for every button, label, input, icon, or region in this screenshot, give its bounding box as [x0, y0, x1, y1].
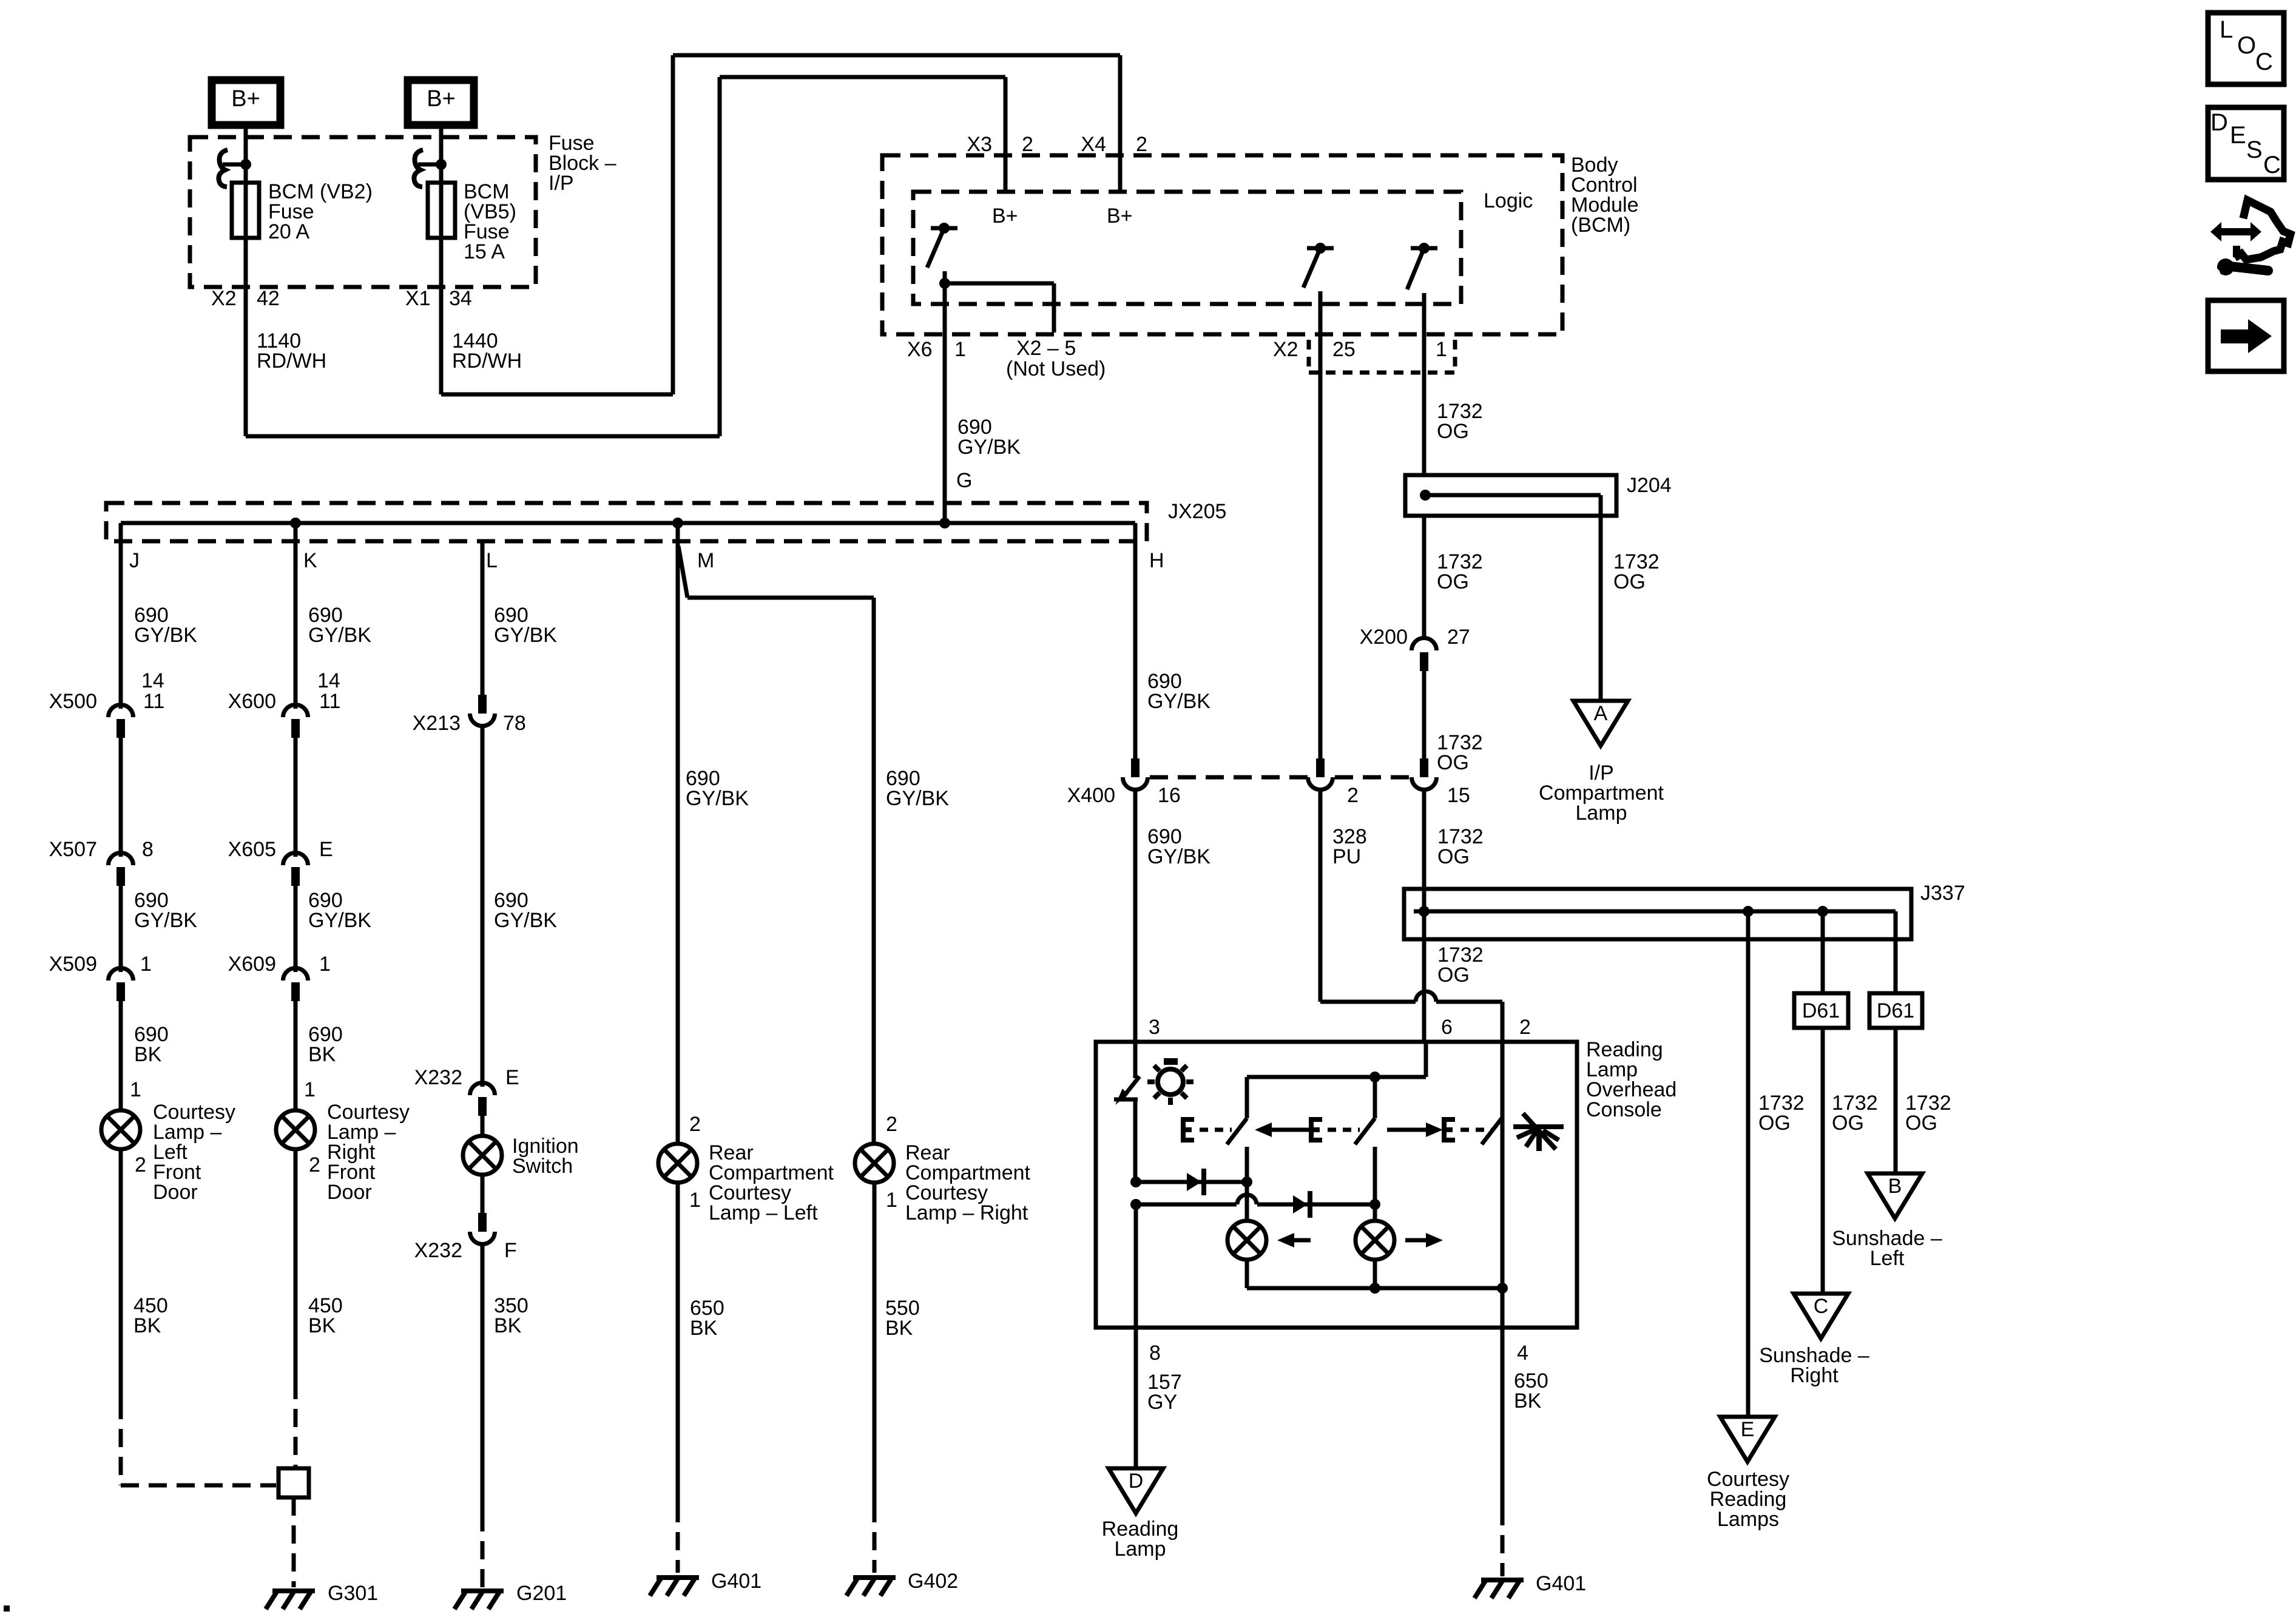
- wire K 690 BK to lamp: [294, 1001, 298, 1111]
- ground G401 (console): [1474, 1580, 1524, 1598]
- lamp Rear Compartment Courtesy Lamp - Left: [658, 1144, 697, 1183]
- label X2 25 1: [1273, 338, 1447, 361]
- svg-text:G: G: [956, 469, 972, 492]
- svg-text:X232: X232: [414, 1066, 462, 1089]
- label X507 8: [49, 838, 154, 861]
- label pin 6 console: [1441, 1016, 1453, 1039]
- node dot J337 left: [1419, 906, 1430, 917]
- svg-text:E: E: [2230, 122, 2246, 149]
- svg-text:L: L: [486, 549, 498, 572]
- label 1732 OG above J337: [1437, 825, 1484, 868]
- off-page connector B (Sunshade Left): [1868, 1173, 1922, 1218]
- node dot J337 mid: [1743, 906, 1754, 917]
- svg-text:GY/BK: GY/BK: [494, 624, 557, 647]
- label X232 E: [414, 1066, 519, 1089]
- BCM switch S3 (X2-1 output): [1407, 243, 1437, 289]
- label J337: [1920, 882, 1965, 905]
- wire 1732 OG J337 to D61 right: [1894, 939, 1898, 993]
- wire 450 BK courtesy right to splice: [294, 1149, 298, 1468]
- label wire 1440 RD/WH: [452, 329, 522, 373]
- svg-text:1: 1: [319, 953, 331, 976]
- dimmer icon: [1513, 1113, 1564, 1151]
- fuse F1 holder clip: [218, 150, 228, 187]
- label G401 console: [1536, 1572, 1586, 1595]
- wire 650 BK rear lamp left to G401: [676, 1182, 680, 1573]
- svg-text:X605: X605: [228, 838, 276, 861]
- arrow right (SW2 direction): [1387, 1122, 1443, 1137]
- svg-text:X232: X232: [414, 1239, 462, 1262]
- wire SW2 to lamp 2: [1369, 1147, 1380, 1221]
- label pin 16: [1158, 784, 1181, 807]
- svg-text:GY/BK: GY/BK: [886, 787, 949, 810]
- svg-text:X213: X213: [413, 712, 461, 735]
- svg-text:J337: J337: [1920, 882, 1965, 905]
- wire 650 BK pin 4 to ground G401: [1501, 1328, 1505, 1576]
- label 328 PU lower: [1332, 825, 1367, 868]
- svg-text:Lamp: Lamp: [1114, 1538, 1166, 1561]
- svg-text:Right: Right: [1790, 1364, 1838, 1387]
- wire J 690 BK to lamp: [119, 1001, 123, 1111]
- wire X6-1 inside BCM: [939, 271, 950, 334]
- label 1732 OG C branch: [1832, 1092, 1878, 1135]
- label fuse block pins X2 42: [211, 287, 280, 310]
- svg-text:8: 8: [1149, 1342, 1161, 1365]
- svg-text:Switch: Switch: [512, 1155, 573, 1178]
- power symbol B+ (feeds BCM VB2 fuse): [212, 80, 280, 125]
- lamp console reading lamp right: [1356, 1221, 1394, 1260]
- svg-text:X4: X4: [1081, 133, 1106, 156]
- wire D61 right to triangle B: [1894, 1028, 1898, 1173]
- wire 350 BK to ground G201: [481, 1244, 485, 1587]
- label X509 1: [49, 953, 152, 976]
- off-page connector D (Reading Lamp): [1109, 1468, 1163, 1513]
- console switch SW3 (dimmer): [1442, 1117, 1502, 1144]
- label 650 BK rear left: [690, 1297, 724, 1340]
- connector X400 dashed face: [1150, 775, 1411, 780]
- wire stub X2-5 not used: [945, 283, 1054, 333]
- connector JX205 dashed outline: [106, 503, 1147, 541]
- splice pack J337: [1404, 889, 1911, 939]
- connector X509 terminal 1: [108, 968, 133, 1001]
- label 690 GY/BK H upper: [1147, 670, 1210, 713]
- console switch SW1 (left reading lamp): [1181, 1117, 1247, 1144]
- fuse F1 node dot and tick: [223, 159, 251, 170]
- label terminal M: [697, 549, 714, 572]
- label pin 2 console: [1519, 1016, 1531, 1039]
- ground G201: [454, 1591, 504, 1609]
- label pin 8: [1149, 1342, 1161, 1365]
- wire 550 BK rear lamp right to G402: [873, 1182, 877, 1573]
- wire 690 GY/BK X400-16 to console pin 3: [1133, 789, 1138, 1042]
- svg-text:1: 1: [304, 1078, 316, 1101]
- fuse F2 BCM (VB5) 15A: [428, 164, 455, 238]
- label X400: [1067, 784, 1115, 807]
- label 450 BK J: [133, 1294, 168, 1337]
- svg-text:X507: X507: [49, 838, 97, 861]
- BCM switch S2 (X2-25 output): [1303, 243, 1334, 288]
- label 1732 OG below X200: [1437, 731, 1483, 774]
- wire 450 BK courtesy left to splice: [121, 1149, 276, 1485]
- svg-text:K: K: [303, 549, 317, 572]
- svg-text:B+: B+: [231, 86, 260, 112]
- label 14 11 (X600): [317, 669, 340, 713]
- label 1732 OG B branch: [1905, 1092, 1951, 1135]
- svg-text:Door: Door: [153, 1181, 198, 1204]
- label X605 E: [228, 838, 333, 861]
- label 690 GY/BK K mid: [308, 889, 371, 932]
- fuse F1 BCM (VB2) 20A: [232, 164, 259, 238]
- wire H drop 690 GY/BK to X400-16: [1133, 523, 1138, 758]
- svg-text:X600: X600: [228, 690, 276, 713]
- svg-text:B+: B+: [992, 204, 1018, 228]
- door jamb switch at pin 3: [1114, 1042, 1140, 1182]
- svg-text:6: 6: [1441, 1016, 1453, 1039]
- label pin 1 rear lamp right: [886, 1189, 897, 1212]
- dome lamp icon (sun symbol): [1147, 1058, 1194, 1105]
- svg-text:PU: PU: [1332, 845, 1361, 868]
- svg-text:BK: BK: [134, 1043, 162, 1066]
- BCM outer dashed box: [882, 155, 1562, 334]
- connector X600 terminals 14-11: [283, 705, 308, 738]
- label 690 BK K: [308, 1023, 343, 1066]
- label 1732 OG above J204: [1437, 400, 1483, 443]
- svg-text:E: E: [319, 838, 333, 861]
- svg-text:X2: X2: [211, 287, 237, 310]
- label G201: [516, 1582, 567, 1605]
- wire L drop 690 GY/BK: [481, 542, 485, 695]
- label G301: [328, 1582, 378, 1605]
- off-page connector C (Sunshade Right): [1794, 1294, 1848, 1338]
- label B+ at X3: [992, 204, 1018, 228]
- label Courtesy Lamp - Left Front Door: [153, 1101, 235, 1204]
- label Rear Compartment Courtesy Lamp - Left: [709, 1141, 834, 1224]
- svg-text:GY/BK: GY/BK: [308, 909, 371, 932]
- svg-text:C: C: [2255, 49, 2273, 75]
- svg-text:Console: Console: [1586, 1098, 1662, 1121]
- label JX205: [1168, 500, 1226, 523]
- svg-text:2: 2: [1519, 1016, 1531, 1039]
- svg-text:1: 1: [140, 953, 152, 976]
- svg-text:E: E: [505, 1066, 519, 1089]
- wire M branch to rear lamp right: [678, 546, 874, 1144]
- label pin 2 courtesy lamp right: [309, 1153, 320, 1176]
- ground G301: [266, 1591, 315, 1609]
- power symbol B+ (feeds BCM VB5 fuse): [408, 80, 474, 125]
- wire lamp bottoms to pin 4: [1247, 1259, 1502, 1294]
- label 690 GY/BK K upper: [308, 604, 371, 647]
- wire pin2/4 vertical inside console: [1497, 1042, 1508, 1328]
- svg-text:H: H: [1149, 549, 1164, 572]
- label pin 3 console: [1149, 1016, 1160, 1039]
- wire SW1 to lamp 1: [1241, 1147, 1252, 1221]
- svg-text:OG: OG: [1437, 964, 1470, 987]
- label fuse block pins X1 34: [405, 287, 472, 310]
- wire K X605 to X609: [294, 886, 298, 972]
- svg-text:X509: X509: [49, 953, 97, 976]
- label J204: [1627, 474, 1672, 497]
- arrow left (SW1 direction): [1255, 1122, 1311, 1137]
- svg-text:2: 2: [886, 1113, 897, 1136]
- label 650 BK console: [1514, 1369, 1548, 1413]
- svg-text:GY/BK: GY/BK: [1147, 690, 1210, 713]
- diode row 2: [1130, 1191, 1375, 1218]
- label Courtesy Lamp - Right Front Door: [327, 1101, 410, 1204]
- label pin 4: [1517, 1342, 1528, 1365]
- label Reading Lamp: [1102, 1517, 1179, 1561]
- wire 1440 RD/WH from fuse F2 to BCM X4: [441, 55, 1120, 394]
- svg-text:B+: B+: [1107, 204, 1133, 228]
- svg-text:27: 27: [1447, 626, 1470, 649]
- svg-text:2: 2: [1136, 133, 1147, 156]
- label pin 1 courtesy lamp right: [304, 1078, 316, 1101]
- label pin 2 courtesy lamp left: [135, 1153, 146, 1176]
- label Rear Compartment Courtesy Lamp - Right: [905, 1141, 1031, 1224]
- wire pin 6 inside console to switch row: [1247, 1042, 1426, 1082]
- wire ignition switch to X232-F: [481, 1174, 485, 1213]
- label 690 GY/BK H lower: [1147, 825, 1210, 868]
- connector X400 terminal 2: [1308, 758, 1333, 790]
- wire 1732 OG J337 to triangle E: [1746, 911, 1751, 1417]
- svg-text:(Not Used): (Not Used): [1006, 357, 1106, 380]
- svg-text:OG: OG: [1758, 1112, 1791, 1135]
- svg-text:14: 14: [141, 669, 164, 692]
- JX205 internal bus wire: [121, 521, 1135, 525]
- wire splice to ground G301: [292, 1497, 296, 1587]
- svg-text:D61: D61: [1877, 999, 1914, 1022]
- svg-text:OG: OG: [1832, 1112, 1864, 1135]
- label X2-5 (Not Used): [1006, 337, 1106, 380]
- label 157 GY: [1147, 1371, 1182, 1414]
- label X200 27: [1360, 626, 1470, 649]
- connector X609 terminal 1: [283, 968, 308, 1001]
- svg-text:16: 16: [1158, 784, 1181, 807]
- svg-text:X6: X6: [907, 338, 933, 361]
- svg-text:GY/BK: GY/BK: [308, 624, 371, 647]
- connector X400 terminal 15: [1412, 758, 1437, 790]
- fuse block I/P dashed outline: [190, 137, 536, 287]
- svg-text:11: 11: [319, 690, 340, 713]
- svg-text:A: A: [1594, 702, 1608, 725]
- svg-text:JX205: JX205: [1168, 500, 1226, 523]
- node dot J337 right: [1817, 906, 1828, 917]
- svg-text:RD/WH: RD/WH: [257, 349, 326, 373]
- wire J drop 690 GY/BK: [119, 523, 123, 709]
- svg-text:C: C: [1814, 1295, 1829, 1318]
- svg-text:Door: Door: [327, 1181, 372, 1204]
- svg-text:1: 1: [954, 338, 966, 361]
- svg-text:X3: X3: [967, 133, 992, 156]
- icon box arrow: [2208, 300, 2284, 371]
- label Ignition Switch: [512, 1135, 579, 1178]
- wire D61 left to triangle C: [1821, 1028, 1825, 1294]
- label pin 2 rear lamp right: [886, 1113, 897, 1136]
- ground G402: [846, 1578, 896, 1596]
- label X232 F: [414, 1239, 517, 1262]
- label X6 1: [907, 338, 966, 361]
- label X609 1: [228, 953, 331, 976]
- connector X213 terminal 78: [470, 695, 495, 726]
- label 690 GY/BK M column: [686, 767, 749, 810]
- wire pin 8 vertical inside console: [1134, 1204, 1138, 1328]
- label pin X4 2: [1081, 133, 1147, 156]
- wire 328 PU X400-2 to console pin 2: [1320, 789, 1502, 1042]
- svg-text:GY: GY: [1147, 1391, 1177, 1414]
- label Sunshade - Left: [1832, 1227, 1942, 1270]
- svg-text:Left: Left: [1870, 1247, 1905, 1270]
- stray scan dot bottom-left: [4, 1605, 10, 1612]
- node dot M on bus: [672, 518, 683, 528]
- svg-text:X400: X400: [1067, 784, 1115, 807]
- svg-text:2: 2: [689, 1113, 701, 1136]
- label terminal K: [303, 549, 317, 572]
- svg-text:2: 2: [1022, 133, 1033, 156]
- svg-text:25: 25: [1332, 338, 1356, 361]
- lamp console reading lamp left: [1227, 1221, 1266, 1260]
- wire 1732 OG from X2-1 to J204: [1422, 334, 1427, 475]
- label 690 GY/BK (G column): [957, 416, 1021, 459]
- lamp Ignition Switch illumination: [463, 1136, 502, 1175]
- svg-text:L: L: [2220, 16, 2233, 43]
- label X500: [49, 690, 97, 713]
- label pin 1 below BCM: [0, 0, 1, 1]
- svg-text:BK: BK: [885, 1317, 913, 1340]
- svg-text:G401: G401: [1536, 1572, 1586, 1595]
- console box Reading Lamp Overhead Console: [1096, 1042, 1577, 1328]
- wire 157 GY pin 8 to triangle D: [1134, 1328, 1138, 1468]
- label 690 GY/BK L mid: [494, 889, 557, 932]
- svg-text:X500: X500: [49, 690, 97, 713]
- svg-text:20 A: 20 A: [268, 220, 309, 243]
- label terminal J: [129, 549, 140, 572]
- label 350 BK: [494, 1294, 528, 1337]
- svg-text:3: 3: [1149, 1016, 1160, 1039]
- label 690 GY/BK L upper: [494, 604, 557, 647]
- svg-text:X2: X2: [1273, 338, 1298, 361]
- label 1732 OG E branch: [1758, 1092, 1805, 1135]
- wire 1732 OG J204 to triangle A: [1599, 516, 1603, 701]
- svg-text:(BCM): (BCM): [1571, 214, 1630, 237]
- label 450 BK K: [308, 1294, 343, 1337]
- svg-text:GY/BK: GY/BK: [494, 909, 557, 932]
- svg-text:2: 2: [309, 1153, 320, 1176]
- svg-text:4: 4: [1517, 1342, 1528, 1365]
- label 690 GY/BK rear right column: [886, 767, 949, 810]
- connector X232 terminal E: [470, 1082, 495, 1116]
- off-page connector A (I/P compartment lamp): [1573, 701, 1628, 746]
- connector X507 terminal 8: [108, 853, 133, 886]
- svg-text:Lamp – Left: Lamp – Left: [709, 1201, 818, 1224]
- fuse F2 node dot and tick: [418, 159, 447, 170]
- svg-text:D: D: [2210, 109, 2228, 136]
- svg-text:G301: G301: [328, 1582, 378, 1605]
- wire 1732 OG X400-15 through J337 to console pin 6: [1422, 789, 1427, 1042]
- svg-text:BK: BK: [494, 1314, 522, 1337]
- wire K drop 690 GY/BK: [294, 523, 298, 709]
- lamp Courtesy Lamp - Right Front Door: [276, 1110, 315, 1149]
- svg-text:M: M: [697, 549, 714, 572]
- svg-text:1: 1: [689, 1189, 701, 1212]
- svg-text:14: 14: [317, 669, 340, 692]
- svg-text:J: J: [129, 549, 140, 572]
- BCM X2 connector dashed outline: [1309, 340, 1456, 373]
- label I/P Compartment Lamp: [1539, 761, 1664, 825]
- label 1732 OG below J337: [1437, 944, 1484, 987]
- svg-text:Lamp – Right: Lamp – Right: [905, 1201, 1028, 1224]
- icon box LOC: [2208, 13, 2284, 84]
- wire 1732 OG X200 to X400-15: [1422, 671, 1427, 758]
- svg-text:1: 1: [130, 1078, 141, 1101]
- BCM Logic dashed box: [913, 192, 1461, 304]
- label pin 15: [1447, 784, 1470, 807]
- lamp Rear Compartment Courtesy Lamp - Right: [855, 1144, 894, 1183]
- svg-text:GY/BK: GY/BK: [134, 624, 197, 647]
- label pin 1 courtesy lamp left: [130, 1078, 141, 1101]
- connector X605 terminal E: [283, 853, 308, 886]
- node G label: [956, 469, 972, 492]
- label pin 2 X400: [1347, 784, 1359, 807]
- svg-text:BK: BK: [1514, 1389, 1542, 1413]
- wire 1732 OG J337 to D61 left: [1821, 911, 1825, 993]
- svg-text:78: 78: [503, 712, 526, 735]
- svg-text:I/P: I/P: [549, 172, 574, 195]
- svg-text:Lamps: Lamps: [1717, 1508, 1779, 1531]
- label X600: [228, 690, 276, 713]
- svg-text:11: 11: [143, 690, 164, 713]
- wire J 690 GY/BK X500 to X507: [119, 738, 123, 857]
- connector X232 terminal F: [470, 1213, 495, 1244]
- label Fuse Block - I/P: [549, 132, 616, 195]
- svg-text:J204: J204: [1627, 474, 1672, 497]
- svg-text:2: 2: [1347, 784, 1359, 807]
- label 1732 OG below J204 left: [1437, 550, 1483, 593]
- label 690 GY/BK J mid: [134, 889, 197, 932]
- connector X200 terminal 27: [1412, 638, 1437, 672]
- svg-text:15 A: 15 A: [464, 240, 505, 263]
- splice S301: [279, 1468, 309, 1497]
- label G401 rear left: [711, 1570, 761, 1593]
- off-page connector E (Courtesy Reading Lamps): [1720, 1417, 1775, 1462]
- label terminal H: [1149, 549, 1164, 572]
- node dot K on bus: [290, 518, 301, 528]
- label Logic: [1484, 189, 1533, 212]
- svg-text:1: 1: [886, 1189, 897, 1212]
- svg-text:8: 8: [142, 838, 154, 861]
- wire B+ to fuse F2: [439, 125, 444, 161]
- label terminal L: [486, 549, 498, 572]
- icon box DESC: [2208, 107, 2284, 180]
- svg-text:GY/BK: GY/BK: [686, 787, 749, 810]
- wire X232-E to ignition switch lamp: [481, 1116, 485, 1136]
- label pin X3 2: [967, 133, 1033, 156]
- wire J X507 to X509: [119, 886, 123, 972]
- svg-text:Logic: Logic: [1484, 189, 1533, 212]
- label 1732 OG J204 right branch: [1613, 550, 1660, 593]
- svg-text:B+: B+: [427, 86, 456, 112]
- svg-text:O: O: [2237, 32, 2256, 59]
- svg-text:D: D: [1129, 1470, 1144, 1493]
- svg-text:BK: BK: [308, 1314, 336, 1337]
- label G402: [908, 1570, 958, 1593]
- svg-text:G402: G402: [908, 1570, 958, 1593]
- wire 1140 RD/WH from fuse F1 to BCM X3: [246, 77, 1005, 436]
- svg-text:RD/WH: RD/WH: [452, 349, 522, 373]
- svg-text:BK: BK: [308, 1043, 336, 1066]
- splice pack J204: [1405, 475, 1616, 516]
- svg-text:X200: X200: [1360, 626, 1408, 649]
- svg-text:2: 2: [135, 1153, 146, 1176]
- label pin 1 rear lamp left: [689, 1189, 701, 1212]
- wire L X213 to X232-E: [481, 726, 485, 1087]
